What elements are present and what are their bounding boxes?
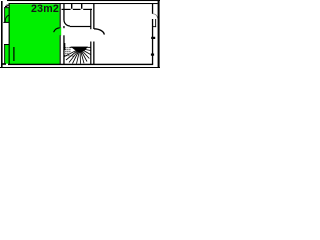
- wall room right outer cap: [63, 26, 64, 28]
- balcony upper outline bottom: [3, 22, 8, 23]
- balcony lower bottom stub: [2, 63, 6, 65]
- stairs converging wedge: [71, 47, 89, 53]
- balcony upper green fill: [4, 7, 9, 22]
- room 23m2 green floor fill: [10, 4, 60, 64]
- stairs left stringer: [64, 43, 65, 50]
- closet bottom notch B: [81, 9, 84, 10]
- wall bottom: [8, 64, 153, 65]
- wall room right outer lower: [63, 35, 64, 64]
- wall right section lower: [152, 19, 153, 64]
- niche wall bottom: [153, 25, 156, 28]
- frame top: [7, 0, 160, 1]
- stairs tread dot texture: [63, 47, 73, 56]
- node doorway green spill: [60, 27, 62, 35]
- balcony upper outline left: [3, 7, 6, 23]
- background: [0, 0, 160, 68]
- wall tick mid right: [151, 37, 155, 39]
- wall stairwell inner lower: [90, 42, 91, 65]
- wall right section upper: [152, 3, 153, 14]
- closet bottom wall: [62, 9, 93, 10]
- wall room right inner lower: [60, 35, 61, 64]
- stairs top edge: [70, 46, 91, 49]
- wall room right inner upper: [60, 3, 61, 28]
- door D4 swing arc: [153, 14, 157, 19]
- balcony lower green fill: [4, 45, 9, 64]
- balcony upper door swing arc: [5, 15, 9, 22]
- balcony lower outline left: [3, 44, 6, 64]
- wall room left: [9, 3, 10, 64]
- closet divider A: [71, 3, 72, 9]
- wall corridor bottom: [70, 26, 91, 27]
- closet bottom notch A: [71, 9, 73, 10]
- door D3 swing arc: [94, 29, 104, 35]
- step at room top-left corner: [6, 5, 9, 6]
- wall corridor outer lower: [93, 42, 94, 65]
- frame right: [158, 0, 160, 68]
- door D1 swing arc: [64, 20, 70, 26]
- frame bottom: [0, 67, 160, 68]
- svg-text:23m2: 23m2: [31, 3, 59, 15]
- wall room right outer upper: [63, 3, 64, 20]
- closet divider B: [81, 3, 82, 9]
- step at room top-left corner 2: [5, 6, 7, 7]
- stairs winder treads: [65, 49, 91, 64]
- wall tick lower right: [151, 54, 154, 56]
- wall stairwell inner upper: [90, 9, 91, 29]
- wall top: [9, 3, 158, 4]
- frame left: [1, 1, 3, 68]
- wall corridor outer upper: [93, 3, 94, 29]
- door D2 swing arc: [54, 28, 60, 32]
- balcony upper outline top: [4, 6, 9, 9]
- partition stub in room bottom-left: [13, 47, 14, 61]
- niche wall right: [154, 19, 157, 27]
- balcony lower outline top: [4, 44, 9, 45]
